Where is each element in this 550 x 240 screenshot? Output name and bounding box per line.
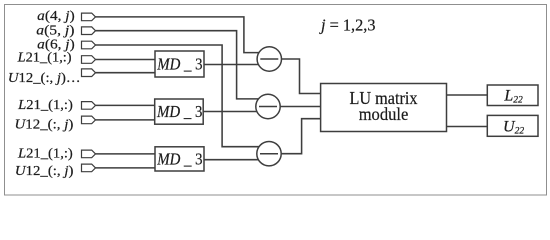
input port L21 row2 [82,102,96,110]
border frame [5,5,547,196]
wire subtractor S1 to LU module [282,59,321,94]
MD_3 module U2 [155,99,204,124]
input port L21 row3 [82,150,96,158]
LU matrix module [321,84,447,132]
svg-text:a(4, j): a(4, j) [37,9,75,24]
svg-text:MD _ 3: MD _ 3 [156,55,202,74]
svg-text:L21_(1,:): L21_(1,:) [17,50,72,65]
input port U12 row1 [82,69,96,77]
input port U12 row3 [82,164,96,172]
wire a(5,j) [96,31,260,99]
svg-text:L21_(1,:): L21_(1,:) [17,146,73,161]
wire subtractor S3 to LU module [281,119,320,154]
input port L21 row1 [82,56,96,64]
svg-text:L21_(1,:): L21_(1,:) [17,98,73,113]
wire MD_3 U3 output to subtractor S3 [204,159,260,161]
MD_3 module U1 [155,51,204,77]
svg-text:U12_(:, j): U12_(:, j) [15,164,74,179]
wire LU module to U22 [447,126,488,128]
input port a(6,j) [82,41,96,49]
input port a(5,j) [82,27,96,35]
svg-text:a(5, j): a(5, j) [36,23,75,38]
wire subtractor S2 to LU module [280,106,320,108]
wire U12_(:,j) row3 to MD_3 U3 [96,167,156,169]
wire MD_3 U1 output to subtractor S1 [204,64,260,66]
wire L21_(1,:) row2 to MD_3 U2 [96,104,155,106]
svg-text:j = 1,2,3: j = 1,2,3 [319,16,375,35]
output block U22 [487,115,538,136]
svg-text:U12_(:, j): U12_(:, j) [15,118,74,133]
wire U12_(:,j) row2 to MD_3 U2 [96,119,155,121]
svg-text:MD _ 3: MD _ 3 [156,102,202,121]
input port U12 row2 [82,116,96,124]
svg-text:MD _ 3: MD _ 3 [156,150,202,169]
wire a(4,j) [96,17,260,53]
wire L21_(1,:) row1 to MD_3 U1 [96,59,156,61]
MD_3 module U3 [155,147,204,171]
wire U12_(:,j) row1 to MD_3 U1 [96,72,156,74]
subtractor S1 [257,47,281,71]
svg-text:U12_(:, j)…: U12_(:, j)… [8,71,81,86]
subtractor S2 [256,94,280,118]
wire LU module to L22 [447,94,488,96]
output block L22 [487,85,538,106]
wire MD_3 U2 output to subtractor S2 [203,111,259,113]
subtractor S3 [257,142,281,166]
wire L21_(1,:) row3 to MD_3 U3 [96,153,156,155]
svg-text:module: module [359,104,409,124]
input port a(4,j) [82,13,96,21]
wire a(6,j) [96,45,260,147]
